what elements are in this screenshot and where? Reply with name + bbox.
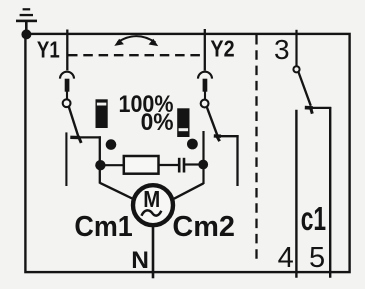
svg-text:N: N — [131, 247, 149, 274]
resistor R1 — [124, 156, 159, 174]
dashed actuator boundary horizontal — [68, 54, 202, 56]
switch S3 blade — [299, 72, 311, 105]
svg-text:4: 4 — [278, 242, 294, 274]
switch S1 blade — [69, 107, 79, 138]
indicator bar 0% — [177, 108, 189, 137]
switch S1 spring hook — [60, 72, 74, 79]
svg-text:M: M — [143, 186, 160, 212]
switch S3 pivot — [293, 66, 299, 72]
wire S3 contact run horizontal — [306, 107, 331, 109]
wire node A to motor — [100, 183, 133, 199]
switch S2 fixed contact stub through node B — [202, 131, 204, 184]
wire capacitor to node B — [185, 163, 200, 165]
wire S1 contact run horizontal — [78, 136, 101, 138]
wire S2 contact run horizontal — [217, 135, 239, 137]
switch S2 thermal bar — [203, 79, 208, 92]
switch S2 link wire — [204, 92, 206, 100]
switch S1 link wire — [66, 92, 68, 100]
motor M1 circle — [133, 185, 173, 225]
switch S1 pivot — [63, 99, 71, 107]
wire 3 drop from top border — [295, 30, 297, 66]
switch S1 open contact stub — [65, 132, 67, 186]
switch S1 thermal bar — [65, 79, 70, 92]
switch S3 blade arrowhead — [305, 106, 313, 110]
capacitor C1 plate left — [178, 158, 181, 173]
switch S2 dead-end contact vertical — [236, 135, 238, 186]
svg-text:0%: 0% — [141, 109, 174, 136]
node B junction dot — [198, 160, 208, 170]
wire node A to resistor — [100, 164, 124, 166]
wire S1 contact run vertical to node A — [99, 136, 101, 183]
svg-text:3: 3 — [274, 34, 290, 65]
outer border frame wire — [25, 34, 349, 272]
svg-text:Cm1: Cm1 — [74, 211, 133, 243]
switch S2 pivot — [201, 100, 209, 108]
node: top-left corner junction dot — [21, 29, 31, 39]
svg-text:5: 5 — [309, 242, 325, 274]
wire resistor to capacitor — [159, 164, 179, 166]
svg-text:c1: c1 — [301, 201, 326, 238]
wire terminal 5 vertical — [329, 107, 331, 278]
svg-text:Y2: Y2 — [210, 36, 234, 62]
switch S2 blade arrowhead — [214, 134, 221, 138]
cam dot left — [106, 139, 117, 150]
indicator bar 100% — [96, 99, 108, 128]
wire terminal 4 vertical — [295, 110, 297, 278]
svg-text:Y1: Y1 — [37, 36, 60, 62]
switch S1 blade arrowhead — [70, 136, 79, 140]
indicator bar 100% marker — [97, 103, 106, 106]
wire node B to motor — [174, 183, 204, 199]
switch S2 blade — [207, 107, 218, 136]
capacitor C1 plate right — [183, 158, 186, 173]
node A junction dot — [95, 160, 105, 170]
rotation double arrow — [114, 36, 158, 46]
cam dot right — [187, 139, 198, 150]
svg-text:Cm2: Cm2 — [172, 211, 235, 243]
indicator bar 0% marker — [179, 128, 189, 131]
switch S2 spring hook — [198, 72, 212, 79]
dashed actuator boundary vertical — [255, 35, 257, 263]
ground — [16, 8, 37, 34]
wire motor to N terminal — [152, 225, 155, 278]
wire Y2 drop from top border — [204, 29, 206, 71]
motor tilde — [142, 210, 162, 215]
wire Y1 drop from top border — [66, 30, 68, 71]
